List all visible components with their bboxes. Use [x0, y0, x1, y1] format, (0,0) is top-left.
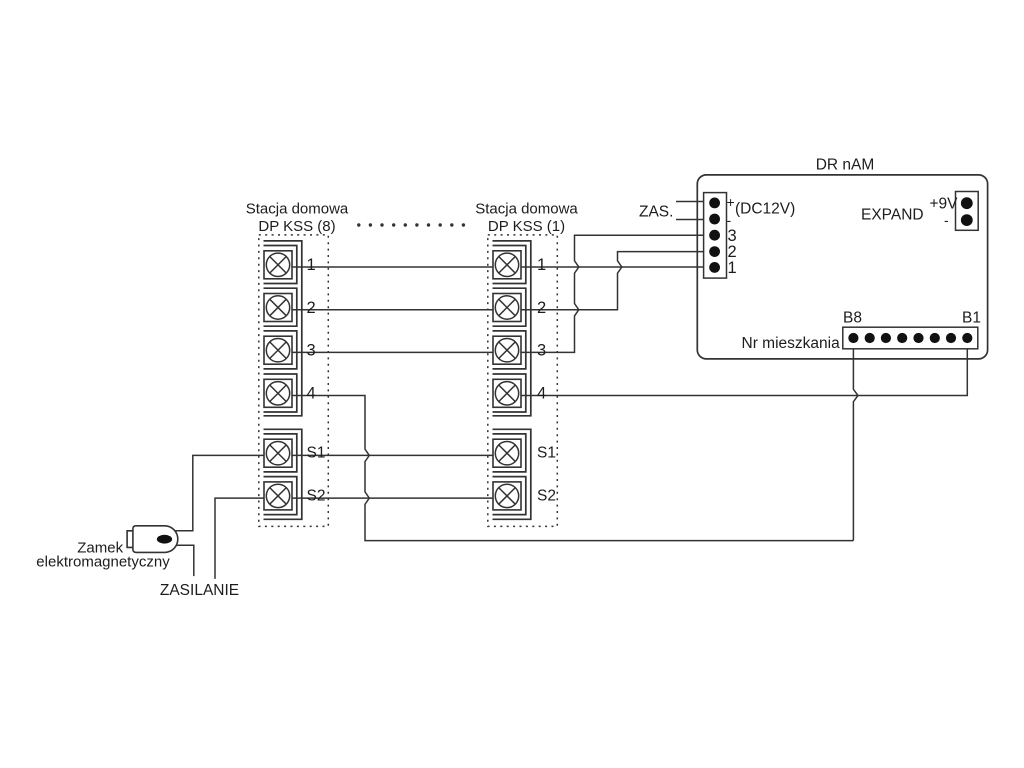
- svg-text:DP KSS (8): DP KSS (8): [258, 218, 335, 235]
- wire net 3: station terminals 3 to ZAS pin 3 (hops over nets 1,2): [278, 235, 710, 352]
- svg-text:-: -: [727, 212, 732, 228]
- svg-text:1: 1: [307, 256, 316, 274]
- station DP KSS (1) bracket terminal 1: [493, 246, 526, 284]
- station DP KSS (1) terminal 2: [493, 294, 521, 322]
- svg-text:(DC12V): (DC12V): [735, 201, 795, 218]
- svg-text:elektromagnetyczny: elektromagnetyczny: [36, 554, 170, 571]
- station DP KSS (1) terminal 1: [493, 251, 521, 279]
- svg-text:4: 4: [537, 385, 546, 403]
- station DP KSS (1) bracket terminal S2: [493, 477, 526, 515]
- station DP KSS (8) terminal-block outline 1-4: [264, 241, 302, 416]
- svg-text:+9V: +9V: [930, 196, 959, 213]
- lock strike bracket: [127, 531, 133, 548]
- station DP KSS (1) terminal S1: [493, 439, 521, 467]
- connector ZAS (power + bus): [704, 193, 727, 279]
- svg-text:Stacja domowa: Stacja domowa: [246, 201, 349, 218]
- connector EXPAND +9V: [956, 192, 979, 231]
- station DP KSS (1) terminal-block outline 1-4: [493, 241, 531, 416]
- station DP KSS (1) bracket terminal 2: [493, 288, 526, 326]
- station DP KSS (1) terminal S2: [493, 482, 521, 510]
- svg-text:S2: S2: [537, 487, 556, 504]
- svg-text:B1: B1: [962, 310, 981, 327]
- station DP KSS (8) bracket terminal 3: [264, 331, 297, 369]
- station DP KSS (1) bracket terminal 3: [493, 331, 526, 369]
- station DP KSS (8) terminal 1: [264, 251, 292, 279]
- station DP KSS (8) bracket terminal 1: [264, 246, 297, 284]
- svg-text:+: +: [727, 194, 735, 210]
- lock armature dot: [157, 535, 172, 544]
- station DP KSS (1) bracket terminal 4: [493, 374, 526, 412]
- station DP KSS (1) bracket terminal S1: [493, 434, 526, 472]
- svg-text:DP KSS (1): DP KSS (1): [488, 218, 565, 235]
- svg-text:-: -: [944, 212, 949, 228]
- svg-text:3: 3: [307, 342, 316, 360]
- svg-text:S2: S2: [307, 487, 326, 504]
- wire net S2: power to S2 terminals: [215, 498, 507, 579]
- svg-text:1: 1: [537, 256, 546, 274]
- station DP KSS (1) terminal-block outline S1-S2: [493, 429, 531, 519]
- svg-text:Nr mieszkania: Nr mieszkania: [742, 335, 841, 352]
- svg-text:4: 4: [307, 385, 316, 403]
- station DP KSS (8) terminal 3: [264, 336, 292, 364]
- svg-text:ZASILANIE: ZASILANIE: [160, 582, 239, 599]
- svg-text:ZAS.: ZAS.: [639, 204, 673, 221]
- station DP KSS (1) terminal 4: [493, 379, 521, 407]
- station DP KSS (1) terminal 3: [493, 336, 521, 364]
- svg-text:EXPAND: EXPAND: [861, 207, 924, 224]
- station DP KSS (8) terminal 4: [264, 379, 292, 407]
- wire net 2: station terminals 2 to ZAS pin 2 (hop over net 1): [278, 252, 710, 310]
- wire ZAS + lead: [676, 201, 710, 203]
- svg-text:B8: B8: [843, 310, 862, 327]
- wire ZAS - lead: [676, 219, 710, 221]
- svg-text:2: 2: [307, 299, 316, 317]
- station DP KSS (8) bracket terminal 4: [264, 374, 297, 412]
- svg-text:Stacja domowa: Stacja domowa: [475, 201, 578, 218]
- svg-text:S1: S1: [537, 445, 556, 462]
- wire net 1: station terminals 1 to ZAS pin 1: [278, 266, 710, 268]
- wire lock lower lead to power: [174, 545, 194, 576]
- svg-text:DR nAM: DR nAM: [816, 157, 875, 174]
- station DP KSS (8) bracket terminal S2: [264, 477, 297, 515]
- connector ZAS pins: [709, 198, 720, 273]
- dotted continuation marks between stations: [357, 223, 465, 226]
- connector EXPAND pins: [961, 197, 973, 226]
- station DP KSS (8) terminal S1: [264, 439, 292, 467]
- svg-text:2: 2: [537, 299, 546, 317]
- svg-text:1: 1: [728, 259, 737, 277]
- electromagnetic lock body: [133, 526, 178, 553]
- wire net 4b: station (1) terminal 4 to B1 (hop over B8 riser): [507, 338, 967, 396]
- station DP KSS (8) terminal 2: [264, 294, 292, 322]
- dotted outline station DP KSS (1): [488, 235, 558, 527]
- svg-text:3: 3: [537, 342, 546, 360]
- station DP KSS (8) bracket terminal S1: [264, 434, 297, 472]
- module DR nAM box: [697, 175, 987, 359]
- station DP KSS (8) terminal-block outline S1-S2: [264, 429, 302, 519]
- connector B pins: [848, 333, 972, 343]
- station DP KSS (8) terminal S2: [264, 482, 292, 510]
- connector Nr mieszkania B8-B1: [843, 327, 978, 349]
- wire net 4a riser to B8: [853, 338, 858, 541]
- wire net 4a: station (8) terminal 4 down to bottom bus (hops over S1,S2): [278, 396, 853, 541]
- wire net S1: lock to S1 terminals: [174, 455, 507, 530]
- station DP KSS (8) bracket terminal 2: [264, 288, 297, 326]
- svg-text:S1: S1: [307, 445, 326, 462]
- dotted outline station DP KSS (8): [259, 235, 329, 527]
